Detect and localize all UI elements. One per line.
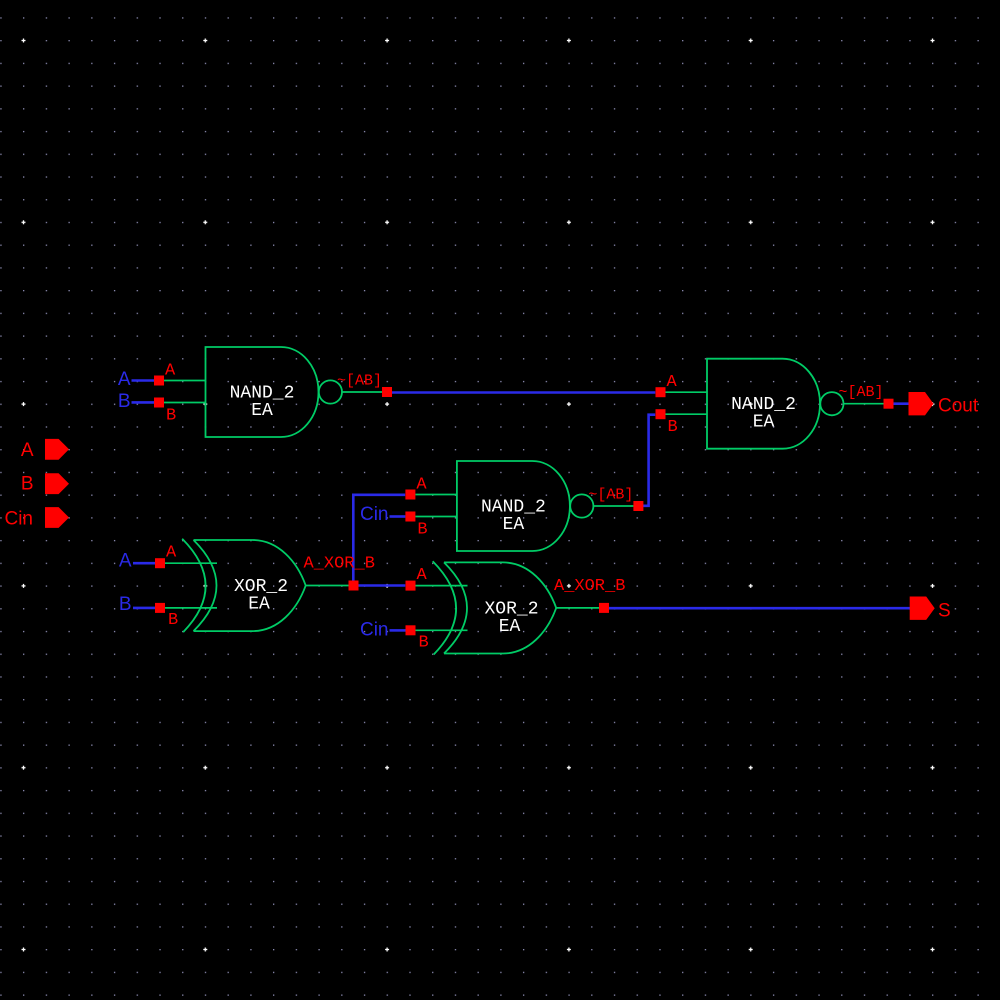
gate body [206, 347, 319, 437]
wire net Cin stub at NAND U3 [390, 515, 406, 518]
wire net A stub at NAND U1 [132, 379, 155, 382]
svg-text:Cin: Cin [360, 504, 389, 525]
pin square OUT [382, 387, 392, 397]
pin stub A [666, 391, 708, 393]
svg-text:A: A [119, 551, 132, 572]
XOR gate U5 (XOR_2 EA) [406, 561, 626, 654]
NAND gate U2 (NAND_2 EA) [656, 359, 894, 449]
output stub [306, 585, 349, 587]
svg-text:EA: EA [248, 595, 270, 615]
gate body [707, 359, 820, 449]
pin square OUT [884, 399, 894, 409]
output stub [342, 391, 382, 393]
svg-text:S: S [938, 601, 951, 622]
inversion bubble [570, 494, 593, 517]
inversion bubble [319, 380, 342, 403]
svg-text:A: A [21, 440, 34, 461]
svg-text:A: A [416, 476, 427, 495]
wire net from NAND U3 out up to NAND U2 in B [641, 415, 655, 506]
svg-text:Cin: Cin [360, 619, 389, 640]
wire net A_XOR_B up to NAND U3 in A [353, 495, 405, 586]
svg-text:~[AB]: ~[AB] [588, 487, 633, 504]
pin square B [405, 512, 415, 522]
svg-text:A: A [118, 369, 131, 390]
svg-text:B: B [119, 594, 132, 615]
gate body [444, 562, 556, 653]
wire net B stub at NAND U1 [132, 401, 155, 404]
input terminal pin B [45, 473, 69, 494]
svg-text:B: B [668, 418, 678, 437]
pin square A [154, 376, 164, 386]
pin square A [155, 558, 165, 568]
output stub [556, 607, 599, 609]
pin stub B [416, 629, 468, 631]
svg-text:B: B [118, 391, 131, 412]
svg-text:EA: EA [499, 617, 521, 637]
pin stub A [164, 380, 206, 382]
output terminal pin Cout [909, 392, 934, 415]
wire net Cout stub to output pin [892, 402, 910, 405]
svg-text:EA: EA [251, 401, 273, 421]
pin square A [656, 387, 666, 397]
svg-text:A: A [166, 544, 177, 563]
pin square A [406, 581, 416, 591]
output stub [593, 505, 633, 507]
input terminal pin Cin [45, 507, 69, 528]
svg-text:A: A [417, 566, 428, 585]
gate body [457, 461, 570, 551]
svg-text:~[AB]: ~[AB] [839, 384, 884, 401]
NAND gate U3 (NAND_2 EA) [405, 461, 643, 551]
pin stub A [165, 562, 217, 564]
wire net A stub at XOR U4 [133, 562, 156, 565]
pin square B [406, 625, 416, 635]
pin square B [155, 603, 165, 613]
wire net Cin stub at XOR U5 [390, 629, 406, 632]
svg-text:Cout: Cout [938, 396, 979, 417]
wire net ~[AB] : NAND U1 out to NAND U2 in A [392, 391, 655, 394]
svg-text:B: B [21, 474, 34, 495]
svg-text:EA: EA [753, 413, 775, 433]
pin square B [656, 409, 666, 419]
pin stub A [415, 494, 457, 496]
pin stub B [165, 607, 217, 609]
pin square OUT [599, 603, 609, 613]
svg-text:B: B [168, 611, 178, 630]
pin square OUT [349, 581, 359, 591]
NAND gate U1 (NAND_2 EA) [154, 347, 392, 437]
svg-text:B: B [166, 407, 176, 426]
output terminal pin S [910, 597, 935, 620]
wire net A_XOR_B2 to output pin S [607, 607, 910, 610]
pin stub A [416, 585, 468, 587]
svg-text:~[AB]: ~[AB] [337, 373, 382, 390]
wire net A_XOR_B to XOR U5 in A [358, 584, 405, 587]
svg-text:EA: EA [503, 515, 525, 535]
svg-text:A_XOR_B: A_XOR_B [554, 577, 625, 596]
svg-text:A_XOR_B: A_XOR_B [304, 555, 375, 574]
pin stub B [666, 413, 708, 415]
svg-text:A: A [667, 373, 678, 392]
pin square OUT [633, 501, 643, 511]
pin stub B [415, 516, 457, 518]
xor extra back arc [433, 561, 456, 654]
svg-text:Cin: Cin [4, 509, 33, 530]
wire net B stub at XOR U4 [133, 607, 156, 610]
pin square A [405, 490, 415, 500]
xor extra back arc [182, 539, 205, 632]
pin stub B [164, 402, 206, 404]
output stub [844, 403, 884, 405]
svg-text:B: B [417, 521, 427, 540]
svg-text:B: B [419, 634, 429, 653]
inversion bubble [820, 392, 843, 415]
gate body [194, 540, 306, 631]
XOR gate U4 (XOR_2 EA) [155, 539, 375, 632]
input terminal pin A [45, 439, 69, 460]
pin square B [154, 398, 164, 408]
svg-text:A: A [165, 362, 176, 381]
